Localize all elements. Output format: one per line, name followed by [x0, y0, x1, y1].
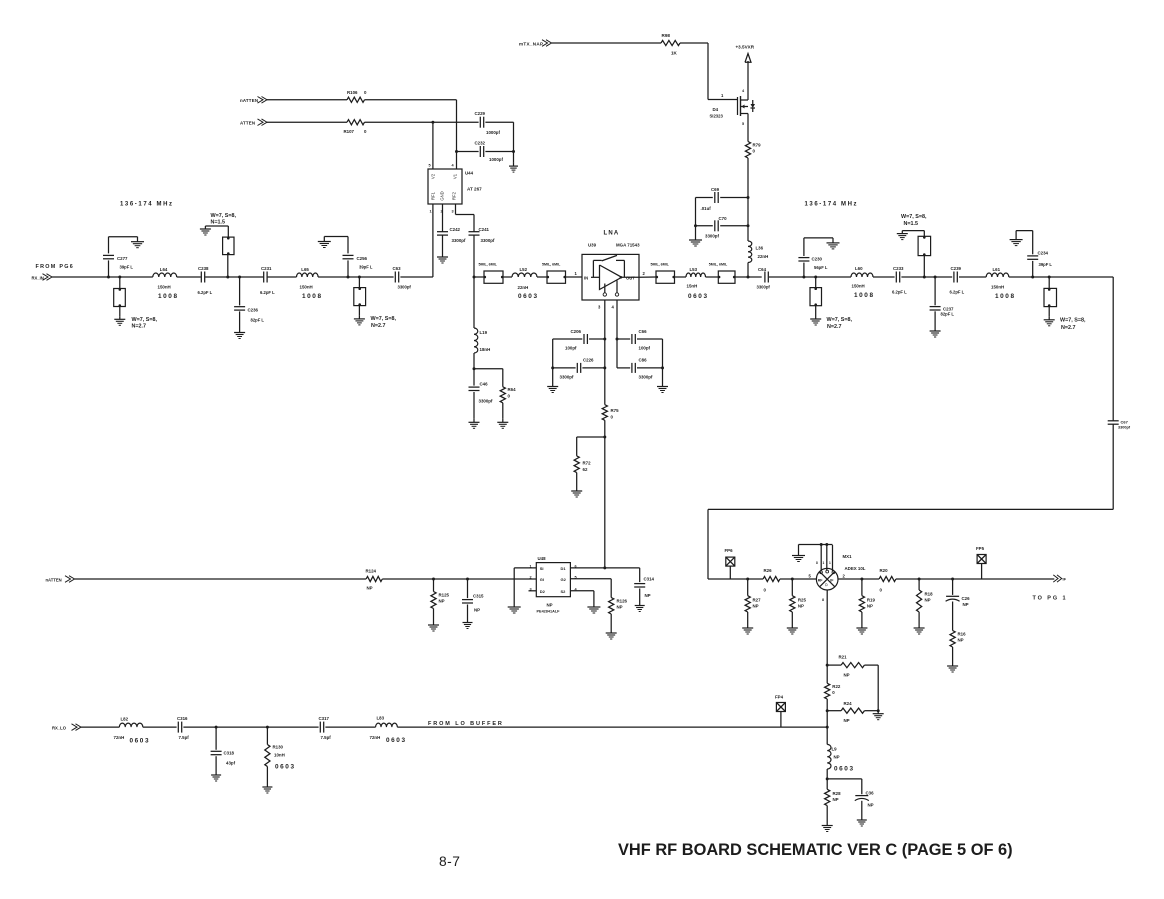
svg-text:2: 2 — [643, 271, 646, 276]
svg-text:8: 8 — [822, 598, 824, 602]
wire R72 to ground — [576, 473, 578, 488]
svg-text:N=1.5: N=1.5 — [904, 221, 919, 227]
svg-text:62: 62 — [583, 467, 588, 472]
svg-text:0: 0 — [764, 588, 767, 593]
wire L82 to C316 — [143, 726, 177, 728]
wire C316 to C318 node — [183, 726, 216, 728]
svg-text:NP: NP — [844, 673, 850, 678]
testpoint FP4 — [776, 703, 785, 712]
svg-text:2: 2 — [843, 574, 846, 579]
capacitor C242 3300pF — [437, 231, 448, 233]
wire C66-C86 right leg — [662, 339, 664, 384]
svg-text:NP: NP — [867, 604, 873, 609]
svg-text:C233: C233 — [893, 266, 904, 271]
wire C256 ground arm — [324, 236, 348, 238]
svg-text:C66: C66 — [639, 329, 648, 334]
svg-text:0603: 0603 — [386, 737, 407, 744]
node C318 junction — [215, 726, 218, 729]
wire down to microstrip 1 — [119, 277, 121, 289]
svg-text:NP: NP — [833, 797, 839, 802]
svg-text:LNA: LNA — [604, 231, 620, 237]
svg-text:R75: R75 — [611, 408, 620, 413]
svg-text:C317: C317 — [319, 716, 330, 721]
svg-text:R124: R124 — [366, 569, 377, 574]
svg-text:C234: C234 — [1038, 251, 1049, 256]
microstrip line element 4 — [718, 271, 735, 283]
svg-text:D1: D1 — [561, 566, 567, 571]
svg-text:IF: IF — [1063, 577, 1067, 582]
svg-text:TO PG 1: TO PG 1 — [1033, 596, 1068, 602]
svg-text:RX_LO: RX_LO — [52, 725, 67, 730]
node R25 junction — [791, 578, 794, 581]
wire C230 node to stub node 4 — [804, 276, 816, 278]
capacitor C226 3300pF — [553, 367, 576, 369]
svg-text:C206: C206 — [571, 329, 582, 334]
node L36 junction — [747, 276, 750, 279]
resistor R124 NP — [366, 576, 382, 581]
svg-text:G: G — [824, 583, 829, 586]
node R130 junction — [266, 726, 269, 729]
svg-text:5: 5 — [429, 164, 431, 168]
microstrip stub W=7 S=8 N=2.7 (2) — [358, 277, 360, 288]
ground above mixer — [798, 555, 800, 557]
capacitor C230 56pF L — [803, 263, 805, 277]
node R28 junction — [826, 777, 829, 780]
wire R106 to U44 pin V1 — [365, 99, 457, 101]
svg-text:150nH: 150nH — [852, 284, 865, 289]
svg-text:0603: 0603 — [518, 293, 539, 300]
microstrip line element 1 — [484, 271, 503, 283]
svg-text:U48: U48 — [538, 556, 547, 561]
svg-text:V2: V2 — [431, 173, 436, 179]
svg-text:ATTEN: ATTEN — [240, 121, 255, 126]
svg-text:FP5: FP5 — [976, 546, 985, 551]
svg-text:.01uf: .01uf — [701, 206, 712, 211]
wire U44 RF2 to C241 — [455, 204, 457, 215]
node C237 junction — [934, 276, 937, 279]
svg-text:3300pf: 3300pf — [757, 285, 771, 290]
inductor L60 150nH — [851, 273, 873, 277]
ground below C236 — [239, 329, 241, 333]
svg-text:C230: C230 — [812, 257, 823, 262]
svg-text:D4: D4 — [713, 107, 719, 112]
svg-text:1: 1 — [823, 561, 825, 565]
svg-text:L19: L19 — [480, 330, 488, 335]
wire C69 to C70 left leg — [695, 198, 697, 237]
svg-text:150nH: 150nH — [158, 285, 171, 290]
ground below C242 — [442, 254, 444, 258]
resistor R98 — [661, 40, 680, 45]
svg-text:SI: SI — [540, 566, 544, 571]
resistor R16 NP — [950, 631, 955, 648]
svg-text:R106: R106 — [347, 90, 358, 95]
svg-text:R24: R24 — [844, 701, 853, 706]
microstrip stub W=7 S=8 N=2.7 (3) — [815, 277, 817, 288]
node C226 junction — [603, 366, 606, 369]
svg-text:150nH: 150nH — [991, 285, 1004, 290]
wire L61 to C234 node — [1009, 276, 1033, 278]
svg-text:C241: C241 — [479, 227, 490, 232]
wire R124 to U48 — [382, 578, 536, 580]
ground below R27 — [747, 625, 749, 629]
wire V2 pin to ATTEN line — [432, 122, 434, 169]
svg-text:nATTEN: nATTEN — [240, 98, 258, 103]
svg-text:G2: G2 — [561, 577, 567, 582]
capacitor C229 1000pF — [479, 117, 481, 128]
svg-text:N=2.7: N=2.7 — [132, 324, 147, 330]
svg-text:N=2.7: N=2.7 — [1061, 325, 1076, 331]
svg-text:5MIL, 6MIL: 5MIL, 6MIL — [709, 263, 728, 267]
svg-text:0603: 0603 — [130, 738, 151, 745]
svg-text:MX1: MX1 — [843, 554, 853, 559]
svg-text:6.2pF L: 6.2pF L — [198, 290, 213, 295]
wire C231 to L65 — [268, 276, 297, 278]
capacitor C318 43pF — [215, 727, 217, 750]
wire main line to right edge — [1049, 276, 1113, 278]
wire C256 node to stub node 3 — [348, 276, 359, 278]
capacitor C233 6.2pF L — [895, 272, 897, 283]
ground below S2 wire — [593, 606, 595, 608]
svg-text:C314: C314 — [644, 577, 655, 582]
node C277 junction — [107, 276, 110, 279]
node C26 junction — [951, 578, 954, 581]
svg-text:18nH: 18nH — [480, 347, 491, 352]
svg-text:L36: L36 — [756, 246, 764, 251]
svg-text:D2: D2 — [540, 589, 546, 594]
svg-text:72nH: 72nH — [114, 735, 125, 740]
svg-text:43pf: 43pf — [226, 761, 236, 766]
ground below C66/C86 — [662, 384, 664, 387]
wire U48 SI to ground — [514, 567, 536, 569]
resistor R20 0 — [879, 576, 896, 581]
ground below SI wire — [513, 606, 515, 608]
node C86 right junction — [661, 366, 664, 369]
svg-text:3: 3 — [598, 305, 601, 310]
node R21 junction — [826, 664, 829, 667]
svg-text:39pF L: 39pF L — [1039, 262, 1053, 267]
svg-text:NP: NP — [753, 604, 759, 609]
node R27 junction — [746, 578, 749, 581]
wire mixer line left segment — [708, 578, 763, 580]
svg-text:72nH: 72nH — [370, 735, 381, 740]
node C315 junction — [466, 578, 469, 581]
svg-text:39pF L: 39pF L — [359, 265, 373, 270]
wire mTX_NAP to R98 — [552, 42, 662, 44]
svg-text:R20: R20 — [880, 568, 889, 573]
svg-text:3300pf: 3300pf — [481, 238, 495, 243]
svg-text:C64: C64 — [758, 267, 767, 272]
wire U48 D2 stub — [529, 590, 537, 592]
svg-text:N=2.7: N=2.7 — [827, 324, 842, 330]
resistor R28 NP — [825, 789, 830, 805]
transistor D4 SI2323 p-channel MOSFET — [737, 97, 739, 115]
node C66 junction — [616, 338, 619, 341]
wire R98 to D4 gate — [680, 42, 708, 44]
wire R21 to R24 right leg — [864, 664, 878, 666]
wire R26 to mixer RF — [780, 578, 817, 580]
node C256 junction — [347, 276, 350, 279]
wire to L53 — [675, 276, 687, 278]
node R19 junction — [860, 578, 863, 581]
svg-text:C86: C86 — [639, 358, 648, 363]
svg-text:NP: NP — [958, 638, 964, 643]
ground below C318 — [215, 772, 217, 776]
svg-text:PE42841ALF: PE42841ALF — [537, 610, 561, 614]
wire to mixer ground — [798, 545, 800, 556]
svg-text:1: 1 — [721, 93, 724, 98]
capacitor C67 3300pF — [1108, 420, 1119, 422]
svg-text:W=7, S=8,: W=7, S=8, — [901, 214, 927, 220]
svg-text:C256: C256 — [357, 256, 368, 261]
svg-text:C316: C316 — [177, 716, 188, 721]
svg-text:C277: C277 — [117, 256, 128, 261]
svg-text:C67: C67 — [1121, 420, 1129, 425]
node C206 junction — [603, 338, 606, 341]
wire C318 node to R130 node — [216, 726, 267, 728]
wire C233 to stub node — [901, 276, 924, 278]
wire U48 G2 to R126 — [570, 578, 611, 580]
capacitor C64 3300pF — [764, 272, 766, 283]
resistor R130 10nH — [266, 727, 268, 744]
svg-text:V1: V1 — [453, 173, 458, 179]
wire microstrip 4 to L36 node — [735, 276, 762, 278]
capacitor C241 3300pF — [469, 231, 480, 233]
svg-text:FP4: FP4 — [775, 695, 784, 700]
svg-text:10nH: 10nH — [274, 753, 285, 758]
svg-text:L9: L9 — [832, 747, 838, 752]
op-amp U44 AT 267 attenuator — [428, 169, 462, 204]
node V2 junction — [431, 121, 434, 124]
wire L36 to RF line — [747, 263, 749, 278]
wire mixer RF-IF right segment — [838, 578, 879, 580]
svg-text:R28: R28 — [833, 791, 842, 796]
svg-text:W=7, S=8,: W=7, S=8, — [827, 317, 853, 323]
svg-text:R26: R26 — [764, 568, 773, 573]
svg-text:L52: L52 — [520, 267, 528, 272]
node C234 junction — [1031, 276, 1034, 279]
node C232-V1 junction — [455, 150, 458, 153]
capacitor C234 39pF L — [1032, 261, 1034, 277]
wire C234 ground arm — [1016, 230, 1033, 232]
svg-text:4: 4 — [612, 305, 615, 310]
wire R107 to C229 — [365, 121, 479, 123]
wire to L60 — [816, 276, 851, 278]
svg-text:3300pf: 3300pf — [639, 375, 653, 380]
capacitor C86 3300pF — [617, 367, 630, 369]
node microstrip junction 2 — [226, 276, 229, 279]
capacitor C36 NP — [855, 795, 868, 797]
svg-text:100pf: 100pf — [565, 346, 577, 351]
ground below C237 — [934, 328, 936, 332]
svg-text:RF1: RF1 — [431, 191, 436, 200]
ground below R16 — [952, 663, 954, 667]
ground below C314 — [639, 602, 641, 606]
svg-text:6.2pF L: 6.2pF L — [892, 290, 907, 295]
wire nATTEN to R124 — [75, 578, 367, 580]
svg-text:3300pf: 3300pf — [479, 399, 493, 404]
node C236 junction — [238, 276, 241, 279]
svg-text:1008: 1008 — [854, 292, 875, 299]
resistor R18 NP — [918, 579, 920, 590]
svg-text:C226: C226 — [583, 358, 594, 363]
svg-text:1008: 1008 — [158, 293, 179, 300]
wire C277 to ground arm — [109, 236, 138, 238]
svg-text:NP: NP — [798, 604, 804, 609]
svg-text:R79: R79 — [753, 143, 762, 148]
wire up to microstrip 2 — [227, 255, 229, 277]
inductor L36 22nH — [748, 241, 752, 263]
svg-text:1008: 1008 — [995, 293, 1016, 300]
svg-text:6.2pF L: 6.2pF L — [950, 290, 965, 295]
svg-text:82pF L: 82pF L — [251, 318, 265, 323]
resistor R125 NP — [433, 579, 435, 592]
svg-text:mTX_NAP: mTX_NAP — [519, 42, 543, 47]
wire D4 source to R79 — [747, 117, 749, 142]
svg-text:C242: C242 — [450, 227, 461, 232]
svg-text:AT 267: AT 267 — [467, 187, 482, 192]
ground below R25 — [791, 625, 793, 629]
resistor R24 NP — [827, 710, 841, 712]
svg-text:L61: L61 — [993, 267, 1001, 272]
svg-text:1: 1 — [575, 271, 578, 276]
ground below R28 — [826, 822, 828, 826]
svg-text:R22: R22 — [832, 684, 841, 689]
wire across to mixer column — [708, 508, 1113, 510]
microstrip stub W=7 S=8 N=2.7 (4) — [1048, 277, 1050, 288]
mixer top ground wires — [820, 545, 822, 572]
wire L60 to C233 — [873, 276, 895, 278]
inductor L65 150nH — [297, 273, 319, 277]
ground below C69/C70 — [695, 237, 697, 241]
svg-text:nATTEN: nATTEN — [46, 577, 62, 582]
wire R79 to C69/C70 node — [747, 158, 749, 241]
svg-text:NP: NP — [868, 803, 874, 808]
node R24 right junction — [877, 709, 880, 712]
svg-text:56pF L: 56pF L — [814, 265, 828, 270]
wire stub node to C236 node — [228, 276, 240, 278]
svg-text:1: 1 — [430, 210, 432, 214]
node C226 left junction — [551, 366, 554, 369]
resistor R27 NP — [747, 579, 749, 596]
svg-text:N=1.5: N=1.5 — [211, 219, 226, 225]
inductor L64 150nH — [153, 273, 177, 277]
svg-text:5MIL, 6MIL: 5MIL, 6MIL — [479, 263, 498, 267]
capacitor C66 100pF — [617, 338, 630, 340]
resistor R79 — [745, 142, 750, 159]
svg-text:0: 0 — [611, 415, 614, 420]
wire L52 to microstrip 2 — [537, 276, 547, 278]
node R24 junction — [826, 709, 829, 712]
svg-text:VHF RF BOARD SCHEMATIC VER C (: VHF RF BOARD SCHEMATIC VER C (PAGE 5 OF … — [618, 841, 1013, 859]
svg-text:R27: R27 — [753, 598, 762, 603]
svg-text:W=7, S=8,: W=7, S=8, — [211, 213, 237, 219]
svg-text:0: 0 — [753, 149, 756, 154]
svg-text:FROM LO BUFFER: FROM LO BUFFER — [428, 721, 504, 727]
svg-text:4: 4 — [452, 164, 455, 168]
svg-text:22nH: 22nH — [758, 254, 769, 259]
wire C230 ground arm — [804, 237, 833, 239]
node IF output — [1053, 575, 1058, 582]
svg-text:C231: C231 — [261, 266, 272, 271]
svg-text:NP: NP — [844, 718, 850, 723]
wire to R64 — [474, 368, 503, 370]
svg-text:0: 0 — [880, 588, 883, 593]
svg-text:8: 8 — [816, 561, 818, 565]
resistor R126 NP — [609, 598, 614, 615]
svg-text:NP: NP — [474, 608, 480, 613]
capacitor C26 NP — [952, 579, 954, 595]
svg-text:W=7, S=8,: W=7, S=8, — [1060, 318, 1086, 324]
ground below R130 — [266, 784, 268, 788]
capacitor C237 82pF L — [934, 277, 936, 305]
wire LNA pin4 down — [616, 300, 618, 368]
svg-text:5MIL, 6MIL: 5MIL, 6MIL — [651, 263, 670, 267]
wire C256 node to C63 — [359, 276, 393, 278]
resistor R25 NP — [791, 579, 793, 596]
svg-text:R72: R72 — [583, 461, 592, 466]
microstrip stub W=7 S=8 N=1.5 (2) — [923, 256, 925, 277]
node RF2 junction — [473, 276, 476, 279]
svg-text:NP: NP — [439, 599, 445, 604]
svg-text:0: 0 — [832, 690, 835, 695]
wire U48 S2 to ground — [570, 590, 594, 592]
ground below C36 — [861, 817, 863, 821]
capacitor C277 39pF L — [108, 260, 110, 277]
wire right vertical to C67 — [1112, 277, 1114, 421]
svg-text:C238: C238 — [198, 266, 209, 271]
ground below R125 — [433, 622, 435, 626]
svg-text:R25: R25 — [798, 598, 807, 603]
capacitor C63 3300pF — [394, 272, 396, 283]
resistor R72 62 — [574, 456, 579, 473]
wire LNA pin3 down — [604, 300, 606, 405]
node C232 right junction — [512, 150, 515, 153]
ground below C315 — [467, 619, 469, 623]
microstrip line element 3 — [656, 271, 675, 283]
svg-text:L60: L60 — [855, 266, 863, 271]
node microstrip junction 1 — [118, 276, 121, 279]
node R72 junction — [603, 436, 606, 439]
ground below R24 — [877, 711, 879, 714]
svg-text:R98: R98 — [662, 33, 671, 38]
inductor L61 150nH — [986, 273, 1009, 277]
wire C64 to C230 node — [769, 276, 804, 278]
wire R20 to IF output — [896, 578, 1054, 580]
svg-text:R19: R19 — [867, 598, 876, 603]
capacitor C231 6.2pF L — [263, 272, 265, 283]
svg-text:3: 3 — [452, 210, 454, 214]
svg-text:C229: C229 — [475, 111, 486, 116]
node R18 junction — [918, 578, 921, 581]
svg-text:U39: U39 — [588, 243, 597, 248]
ground below C229/C232 — [513, 163, 515, 167]
wire to L52 — [503, 276, 512, 278]
svg-text:R130: R130 — [273, 745, 284, 750]
resistor R19 NP — [861, 579, 863, 596]
wire C206-C226 left leg — [552, 339, 554, 384]
svg-text:2: 2 — [530, 576, 532, 580]
svg-text:136-174 MHz: 136-174 MHz — [120, 202, 174, 208]
inductor L19 18nH — [473, 277, 475, 328]
svg-text:NP: NP — [367, 586, 373, 591]
ground below R19 — [861, 625, 863, 629]
svg-text:W=7, S=8,: W=7, S=8, — [371, 316, 397, 322]
wire nATTEN to R106 — [267, 99, 347, 101]
svg-text:82pF L: 82pF L — [941, 312, 955, 317]
wire L64 to C238 — [177, 276, 201, 278]
capacitor C316 7.5pF — [177, 722, 179, 733]
svg-text:IN: IN — [584, 275, 588, 280]
